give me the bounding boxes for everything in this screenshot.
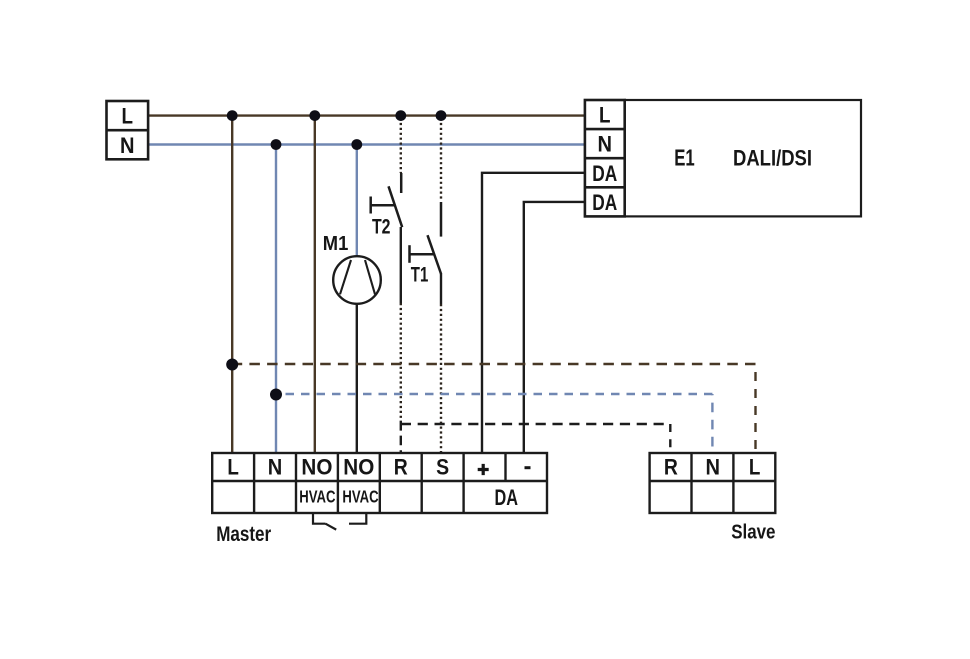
svg-text:R: R — [394, 455, 408, 480]
svg-text:DA: DA — [592, 190, 617, 215]
svg-text:N: N — [120, 133, 135, 158]
svg-text:Slave: Slave — [731, 522, 775, 544]
svg-text:N: N — [268, 455, 283, 480]
svg-text:N: N — [706, 455, 721, 480]
svg-text:NO: NO — [343, 455, 374, 480]
svg-text:HVAC: HVAC — [342, 486, 378, 506]
svg-text:T1: T1 — [411, 264, 429, 287]
svg-text:DALI/DSI: DALI/DSI — [733, 146, 812, 171]
svg-text:Master: Master — [216, 523, 271, 546]
svg-text:NO: NO — [301, 455, 332, 480]
svg-text:HVAC: HVAC — [299, 486, 335, 506]
svg-text:DA: DA — [494, 485, 518, 510]
svg-text:M1: M1 — [323, 233, 349, 255]
svg-text:L: L — [122, 104, 134, 129]
svg-text:DA: DA — [592, 161, 617, 186]
svg-text:R: R — [664, 455, 678, 480]
svg-text:N: N — [598, 132, 613, 157]
svg-text:E1: E1 — [674, 145, 695, 171]
svg-text:L: L — [599, 103, 611, 128]
svg-text:L: L — [749, 455, 761, 480]
svg-text:T2: T2 — [372, 216, 391, 239]
svg-text:L: L — [227, 455, 239, 480]
svg-text:S: S — [436, 455, 449, 480]
